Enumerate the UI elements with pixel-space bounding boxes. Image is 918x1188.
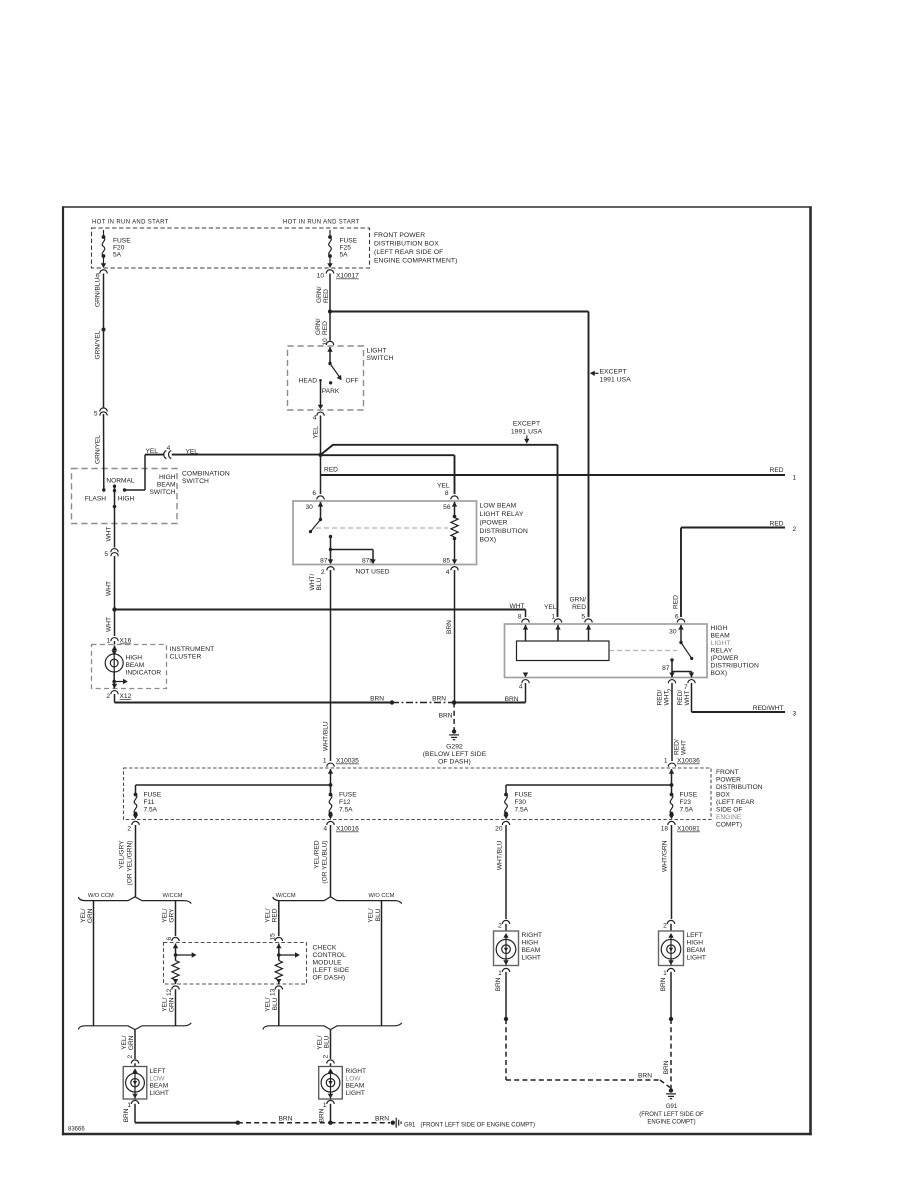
svg-text:WHT/: WHT/ — [309, 573, 316, 590]
svg-text:BRN: BRN — [370, 696, 384, 703]
svg-text:WHT: WHT — [509, 603, 524, 610]
svg-text:1: 1 — [106, 638, 110, 645]
svg-text:WHT: WHT — [681, 740, 688, 755]
svg-text:RED/: RED/ — [657, 690, 664, 706]
svg-text:LIGHT RELAY: LIGHT RELAY — [480, 511, 524, 518]
svg-text:INSTRUMENT: INSTRUMENT — [170, 646, 215, 653]
svg-text:RIGHT: RIGHT — [346, 1068, 367, 1075]
svg-text:12: 12 — [166, 988, 173, 996]
svg-text:LIGHT: LIGHT — [522, 955, 541, 962]
svg-text:56: 56 — [443, 504, 451, 511]
svg-text:SWITCH: SWITCH — [182, 478, 209, 485]
svg-text:2: 2 — [127, 826, 131, 833]
svg-text:YEL: YEL — [313, 426, 320, 439]
svg-text:LOW: LOW — [150, 1075, 166, 1082]
svg-text:MODULE: MODULE — [313, 960, 343, 967]
svg-text:YEL: YEL — [437, 483, 450, 490]
svg-text:FUSE: FUSE — [144, 792, 162, 799]
svg-text:BRN: BRN — [446, 620, 453, 634]
svg-text:LOW: LOW — [346, 1075, 362, 1082]
svg-text:8: 8 — [518, 614, 522, 621]
svg-text:BRN: BRN — [432, 696, 446, 703]
svg-text:WHT: WHT — [684, 690, 691, 705]
svg-text:BLU: BLU — [316, 577, 323, 590]
svg-text:YEL/: YEL/ — [121, 1035, 128, 1049]
svg-text:G292: G292 — [446, 744, 463, 751]
svg-text:X10035: X10035 — [336, 758, 359, 765]
svg-text:OF DASH): OF DASH) — [313, 975, 346, 982]
svg-text:DISTRIBUTION: DISTRIBUTION — [711, 663, 759, 670]
svg-text:4: 4 — [519, 684, 523, 691]
svg-text:BEAM: BEAM — [150, 1083, 169, 1090]
svg-text:13: 13 — [270, 988, 277, 996]
svg-text:8: 8 — [445, 490, 449, 497]
svg-text:HIGH: HIGH — [711, 625, 728, 632]
svg-text:87: 87 — [662, 665, 670, 672]
svg-text:W/O CCM: W/O CCM — [368, 893, 394, 899]
svg-text:83666: 83666 — [68, 1127, 85, 1133]
svg-text:COMBINATION: COMBINATION — [182, 471, 230, 478]
svg-text:G91: G91 — [404, 1123, 416, 1129]
svg-text:FUSE: FUSE — [680, 792, 698, 799]
svg-text:F20: F20 — [113, 245, 125, 252]
svg-text:RELAY: RELAY — [711, 648, 733, 655]
svg-text:X12: X12 — [120, 693, 132, 700]
svg-text:BEAM: BEAM — [346, 1083, 365, 1090]
svg-text:YEL: YEL — [146, 448, 159, 455]
svg-text:GRN/YEL: GRN/YEL — [95, 330, 102, 359]
svg-text:ENGINE: ENGINE — [716, 814, 742, 821]
svg-text:15: 15 — [270, 933, 277, 941]
svg-text:LIGHT: LIGHT — [346, 1090, 365, 1097]
svg-text:LEFT: LEFT — [150, 1068, 166, 1075]
svg-text:5A: 5A — [340, 252, 349, 259]
svg-text:GRN/BLU: GRN/BLU — [95, 277, 102, 307]
svg-text:GRN: GRN — [169, 997, 176, 1012]
svg-text:FUSE: FUSE — [339, 792, 357, 799]
svg-text:GRN/YEL: GRN/YEL — [95, 435, 102, 464]
svg-text:1: 1 — [323, 1102, 327, 1109]
svg-text:BRN: BRN — [279, 1116, 293, 1123]
svg-text:HIGH: HIGH — [159, 474, 176, 481]
svg-text:BRN: BRN — [375, 1116, 389, 1123]
svg-text:BOX: BOX — [716, 792, 731, 799]
svg-text:RIGHT: RIGHT — [522, 932, 543, 939]
svg-text:YEL: YEL — [186, 449, 199, 456]
svg-text:87: 87 — [320, 558, 328, 565]
svg-text:LOW BEAM: LOW BEAM — [480, 503, 517, 510]
svg-text:COMPT): COMPT) — [716, 822, 742, 829]
svg-text:LIGHT: LIGHT — [711, 640, 731, 647]
svg-text:YEL/: YEL/ — [265, 997, 272, 1011]
svg-text:(OR YEL/BLU): (OR YEL/BLU) — [322, 841, 329, 884]
svg-text:YEL/: YEL/ — [368, 908, 375, 922]
svg-text:(POWER: (POWER — [711, 655, 739, 662]
svg-text:BRN: BRN — [663, 1060, 670, 1074]
svg-text:LIGHT: LIGHT — [367, 348, 387, 355]
svg-text:GRN/: GRN/ — [316, 286, 323, 303]
svg-text:BOX): BOX) — [480, 537, 497, 544]
svg-text:YEL/: YEL/ — [80, 908, 87, 922]
svg-text:BRN: BRN — [638, 1073, 652, 1080]
svg-text:30: 30 — [669, 629, 677, 636]
svg-text:ENGINE COMPT): ENGINE COMPT) — [647, 1120, 695, 1126]
svg-text:2: 2 — [793, 526, 797, 533]
svg-text:2: 2 — [321, 569, 325, 576]
svg-text:WHT: WHT — [106, 617, 113, 632]
svg-text:PARK: PARK — [322, 388, 340, 395]
svg-text:(LEFT REAR SIDE OF: (LEFT REAR SIDE OF — [374, 249, 443, 256]
svg-text:7: 7 — [684, 684, 688, 691]
svg-text:GRY: GRY — [169, 908, 176, 923]
svg-text:WHT/BLU: WHT/BLU — [323, 721, 330, 751]
svg-text:F11: F11 — [144, 799, 155, 806]
svg-text:YEL/: YEL/ — [265, 908, 272, 922]
svg-text:OF DASH): OF DASH) — [438, 759, 471, 766]
svg-text:2: 2 — [663, 923, 667, 930]
svg-text:85: 85 — [443, 558, 451, 565]
svg-text:BLU: BLU — [272, 997, 279, 1010]
svg-text:NORMAL: NORMAL — [106, 478, 135, 485]
svg-text:4: 4 — [323, 826, 327, 833]
svg-text:18: 18 — [661, 826, 669, 833]
svg-text:YEL/: YEL/ — [317, 1035, 324, 1049]
svg-text:RED: RED — [770, 521, 784, 528]
svg-text:BRN: BRN — [123, 1108, 130, 1122]
svg-text:RED/WHT: RED/WHT — [753, 705, 784, 712]
svg-text:YEL: YEL — [544, 604, 557, 611]
svg-text:DISTRIBUTION BOX: DISTRIBUTION BOX — [374, 241, 439, 248]
svg-text:RED: RED — [673, 595, 680, 609]
svg-text:BLU: BLU — [324, 1035, 331, 1048]
svg-text:(OR YEL/GRN): (OR YEL/GRN) — [127, 841, 134, 886]
svg-text:FRONT: FRONT — [716, 769, 739, 776]
svg-text:RED: RED — [323, 289, 330, 303]
svg-text:LEFT: LEFT — [687, 932, 703, 939]
svg-text:WHT/GRN: WHT/GRN — [662, 840, 669, 872]
svg-text:BRN: BRN — [660, 977, 667, 991]
svg-text:6: 6 — [312, 490, 316, 497]
svg-text:RED: RED — [272, 908, 279, 922]
svg-text:5A: 5A — [113, 252, 122, 259]
svg-text:G91: G91 — [666, 1104, 678, 1110]
svg-text:YEL/RED: YEL/RED — [314, 840, 321, 868]
svg-text:RED/: RED/ — [677, 690, 684, 706]
svg-text:HEAD: HEAD — [299, 378, 318, 385]
svg-text:WHT/BLU: WHT/BLU — [497, 840, 504, 870]
svg-text:(POWER: (POWER — [480, 520, 508, 527]
svg-text:F25: F25 — [340, 245, 352, 252]
svg-text:LIGHT: LIGHT — [687, 955, 706, 962]
svg-text:BOX): BOX) — [711, 670, 728, 677]
svg-text:RED: RED — [770, 467, 784, 474]
svg-text:GRN: GRN — [87, 908, 94, 923]
svg-text:(FRONT LEFT SIDE OF: (FRONT LEFT SIDE OF — [639, 1112, 704, 1118]
svg-text:OFF: OFF — [346, 378, 359, 385]
svg-text:FUSE: FUSE — [340, 238, 358, 245]
svg-text:FLASH: FLASH — [85, 496, 106, 503]
svg-text:20: 20 — [495, 826, 503, 833]
svg-text:BRN: BRN — [495, 977, 502, 991]
svg-text:6: 6 — [166, 937, 173, 941]
svg-text:RED: RED — [322, 321, 329, 335]
svg-text:INDICATOR: INDICATOR — [126, 670, 162, 677]
svg-text:HIGH: HIGH — [118, 496, 135, 503]
svg-text:W/CCM: W/CCM — [276, 893, 296, 899]
svg-text:1991 USA: 1991 USA — [600, 377, 632, 384]
svg-text:BLU: BLU — [375, 908, 382, 921]
svg-text:1: 1 — [498, 970, 502, 977]
svg-text:87b: 87b — [362, 558, 373, 565]
svg-text:2: 2 — [127, 1055, 134, 1059]
svg-text:FRONT POWER: FRONT POWER — [374, 232, 425, 239]
svg-text:1: 1 — [127, 1102, 131, 1109]
svg-text:X16: X16 — [120, 638, 132, 645]
svg-text:DISTRIBUTION: DISTRIBUTION — [480, 528, 528, 535]
svg-text:RED: RED — [324, 467, 338, 474]
svg-text:YEL/: YEL/ — [162, 908, 169, 922]
svg-text:POWER: POWER — [716, 777, 741, 784]
svg-text:YEL/GRY: YEL/GRY — [119, 840, 126, 869]
svg-text:1: 1 — [551, 614, 555, 621]
svg-text:2: 2 — [323, 1055, 330, 1059]
svg-text:BEAM: BEAM — [157, 482, 176, 489]
svg-text:CHECK: CHECK — [313, 945, 337, 952]
svg-text:BRN: BRN — [439, 713, 453, 720]
svg-text:X10017: X10017 — [336, 273, 359, 280]
svg-text:X10016: X10016 — [336, 826, 359, 833]
svg-text:F23: F23 — [680, 799, 692, 806]
svg-text:EXCEPT: EXCEPT — [600, 369, 627, 376]
svg-text:2: 2 — [106, 693, 110, 700]
svg-text:HOT IN RUN AND START: HOT IN RUN AND START — [283, 220, 360, 226]
svg-text:SWITCH: SWITCH — [149, 489, 175, 496]
svg-text:RED/: RED/ — [674, 739, 681, 755]
svg-text:HIGH: HIGH — [687, 940, 704, 947]
svg-text:(LEFT REAR: (LEFT REAR — [716, 799, 755, 806]
svg-text:1: 1 — [793, 475, 797, 482]
svg-text:10: 10 — [322, 338, 329, 346]
svg-text:BEAM: BEAM — [711, 633, 731, 640]
svg-text:LIGHT: LIGHT — [150, 1090, 169, 1097]
svg-text:BRN: BRN — [319, 1108, 326, 1122]
svg-text:GRN/: GRN/ — [315, 318, 322, 335]
svg-text:4: 4 — [167, 445, 171, 452]
svg-text:(LEFT SIDE: (LEFT SIDE — [313, 967, 350, 974]
svg-text:W/CCM: W/CCM — [163, 893, 183, 899]
svg-text:6: 6 — [675, 614, 679, 621]
svg-text:HOT IN RUN AND START: HOT IN RUN AND START — [92, 220, 169, 226]
svg-text:YEL/: YEL/ — [162, 997, 169, 1011]
svg-text:ENGINE COMPARTMENT): ENGINE COMPARTMENT) — [374, 258, 457, 265]
svg-text:1: 1 — [323, 758, 327, 765]
svg-text:F30: F30 — [515, 799, 527, 806]
svg-text:FUSE: FUSE — [515, 792, 533, 799]
svg-text:GRN/: GRN/ — [570, 597, 587, 604]
svg-text:NOT USED: NOT USED — [356, 569, 390, 576]
svg-text:WHT: WHT — [106, 526, 113, 541]
svg-text:30: 30 — [306, 504, 314, 511]
svg-text:BEAM: BEAM — [126, 662, 145, 669]
svg-text:EXCEPT: EXCEPT — [513, 421, 540, 428]
svg-text:7.5A: 7.5A — [680, 807, 694, 814]
svg-text:GRN: GRN — [128, 1035, 135, 1050]
svg-text:FUSE: FUSE — [113, 238, 131, 245]
svg-text:RED: RED — [572, 604, 586, 611]
svg-text:SIDE OF: SIDE OF — [716, 807, 742, 814]
svg-text:DISTRIBUTION: DISTRIBUTION — [716, 784, 763, 791]
svg-text:1: 1 — [664, 758, 668, 765]
svg-text:7.5A: 7.5A — [339, 807, 353, 814]
svg-text:WHT: WHT — [106, 581, 113, 596]
svg-text:7.5A: 7.5A — [515, 807, 529, 814]
svg-text:5: 5 — [94, 411, 98, 418]
svg-text:BEAM: BEAM — [522, 947, 541, 954]
svg-text:(BELOW LEFT SIDE: (BELOW LEFT SIDE — [423, 751, 487, 758]
svg-text:HIGH: HIGH — [126, 655, 143, 662]
svg-text:10: 10 — [317, 273, 325, 280]
svg-text:5: 5 — [581, 614, 585, 621]
svg-text:F12: F12 — [339, 799, 351, 806]
svg-text:2: 2 — [498, 923, 502, 930]
svg-text:W/O CCM: W/O CCM — [88, 893, 114, 899]
svg-text:CONTROL: CONTROL — [313, 952, 347, 959]
svg-text:X10081: X10081 — [677, 826, 700, 833]
svg-text:7.5A: 7.5A — [144, 807, 158, 814]
svg-text:5: 5 — [104, 551, 108, 558]
svg-text:WHT: WHT — [664, 690, 671, 705]
svg-text:3: 3 — [793, 711, 797, 718]
svg-text:1991 USA: 1991 USA — [511, 429, 543, 436]
svg-text:BEAM: BEAM — [687, 947, 706, 954]
svg-text:SWITCH: SWITCH — [367, 355, 394, 362]
svg-text:4: 4 — [446, 569, 450, 576]
svg-text:X10036: X10036 — [677, 758, 700, 765]
svg-text:1: 1 — [663, 970, 667, 977]
svg-text:(FRONT LEFT SIDE OF ENGINE COM: (FRONT LEFT SIDE OF ENGINE COMPT) — [421, 1123, 535, 1129]
svg-text:CLUSTER: CLUSTER — [170, 654, 202, 661]
svg-text:4: 4 — [313, 415, 317, 422]
svg-text:HIGH: HIGH — [522, 940, 539, 947]
